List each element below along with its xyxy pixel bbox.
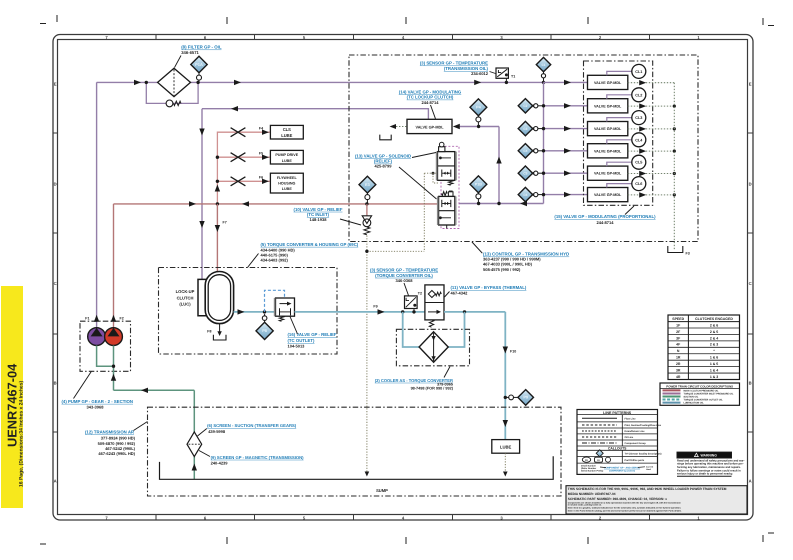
svg-text:F1: F1 — [85, 317, 89, 321]
arrow F2 outlet — [111, 315, 124, 322]
label (15) VALVE GP - MODULATING (PROPORTIONAL) — [554, 206, 656, 225]
svg-text:A: A — [749, 479, 752, 484]
label (5) TORQUE CONVERTER & HOUSING GP (69C) — [248, 242, 359, 268]
svg-text:104-5013: 104-5013 — [288, 343, 306, 348]
svg-text:(4) PUMP GP - GEAR - 2 - SECTI: (4) PUMP GP - GEAR - 2 - SECTION — [62, 399, 133, 404]
wire pump F2 riser (red, x=113.5) — [113, 204, 115, 328]
valve GP-MDL (TC lockup) box (14) — [407, 119, 452, 133]
svg-text:LOCK-UP: LOCK-UP — [176, 289, 195, 294]
lockup clutch capsule (torque converter) — [205, 272, 233, 324]
svg-text:P8: P8 — [262, 328, 268, 333]
junctions on drain bus — [673, 105, 676, 197]
svg-text:CALLOUTS: CALLOUTS — [608, 447, 627, 451]
label T1 — [511, 75, 515, 79]
svg-text:LUBE: LUBE — [282, 159, 293, 163]
svg-text:C1: C1 — [541, 63, 545, 67]
svg-text:P9: P9 — [523, 395, 529, 400]
svg-text:VALVE GP-MDL: VALVE GP-MDL — [594, 193, 622, 197]
svg-text:CL6: CL6 — [635, 182, 642, 186]
svg-text:(3) SENSOR GP - TEMPERATURE: (3) SENSOR GP - TEMPERATURE — [420, 61, 488, 66]
flow arrow into CLS lube box — [262, 130, 269, 135]
flow arrow pump suction up — [111, 374, 116, 381]
svg-text:E3: E3 — [365, 182, 371, 187]
svg-text:346-6571: 346-6571 — [181, 50, 199, 55]
svg-text:434-6403 (992): 434-6403 (992) — [261, 258, 289, 263]
svg-text:Component Group: Component Group — [625, 442, 647, 445]
svg-text:2 & 5: 2 & 5 — [710, 330, 718, 334]
svg-text:439-5998: 439-5998 — [208, 429, 226, 434]
svg-text:LUBE: LUBE — [282, 187, 293, 191]
svg-text:Note: In the Parts Network cat: Note: In the Parts Network catalog, part… — [568, 510, 682, 513]
wire thermal valve out (teal) — [444, 311, 505, 313]
svg-text:234-6012: 234-6012 — [471, 71, 489, 76]
wire lube manifold riser (x=217.4) — [217, 132, 270, 204]
svg-text:F3: F3 — [686, 252, 690, 256]
svg-text:COMPONENT Gp (where): COMPONENT Gp (where) — [609, 469, 636, 472]
valve GP-MDL boxes x6 — [588, 75, 628, 201]
svg-text:F5: F5 — [259, 152, 263, 156]
port P9 diamond — [518, 390, 534, 406]
svg-text:508-4575 (990 / 992): 508-4575 (990 / 992) — [483, 267, 521, 272]
svg-text:CLUTCHES ENGAGED: CLUTCHES ENGAGED — [695, 317, 733, 321]
svg-text:(15) VALVE GP - MODULATING (PR: (15) VALVE GP - MODULATING (PROPORTIONAL… — [554, 214, 656, 219]
drawing frame outer rounded border — [53, 35, 753, 521]
svg-text:(9) SCREEN GP - MAGNETIC (TRAN: (9) SCREEN GP - MAGNETIC (TRANSMISSION) — [211, 455, 305, 460]
svg-text:B: B — [749, 381, 752, 386]
transmission AR sump dash-dot box (12) — [148, 407, 562, 496]
sensor GP temperature T1 (3) — [496, 68, 508, 82]
label (16) VALVE GP - RELIEF (TC OUTLET) — [288, 317, 337, 349]
bottom schematic description box — [566, 486, 747, 514]
box LUBE — [492, 440, 520, 454]
wire cooler outlet drop (teal, x=505.3) — [503, 312, 508, 440]
svg-text:(16) VALVE GP - RELIEF: (16) VALVE GP - RELIEF — [288, 332, 337, 337]
wire lube branch F6 — [217, 180, 270, 182]
port C1 diamond (top of bus) — [536, 57, 550, 71]
screen suction diamond (6) — [187, 432, 202, 457]
svg-text:VALVE GP-MDL: VALVE GP-MDL — [594, 104, 622, 108]
port P1A stem circle — [197, 73, 202, 83]
junction sensor T1 — [505, 81, 508, 84]
frame zone tick marks — [53, 35, 753, 521]
junction cooler return — [463, 310, 466, 313]
label (8) FILTER GP - OIL — [175, 45, 222, 68]
ports C2-C6 diamonds with stems — [518, 99, 543, 202]
svg-text:Oil Line: Oil Line — [625, 436, 634, 439]
label F9 — [373, 305, 377, 309]
spring between valves — [442, 192, 448, 196]
sensor GP temperature T2 (3) — [405, 296, 418, 314]
wire TC outlet to thermal valve (teal) — [295, 309, 425, 314]
solenoid valve lower body — [438, 196, 456, 228]
port P8 stem — [262, 314, 267, 322]
svg-text:1 & 6: 1 & 6 — [710, 356, 718, 360]
label (3) SENSOR GP TEMPERATURE (TORQUE CONVERTER OIL) — [370, 267, 438, 295]
svg-text:D: D — [749, 182, 752, 187]
svg-text:C5: C5 — [523, 172, 527, 176]
svg-text:Drain/Return Line: Drain/Return Line — [625, 430, 646, 433]
svg-text:F9: F9 — [373, 305, 377, 309]
svg-text:SCHEMATIC PART NUMBER: 398-480: SCHEMATIC PART NUMBER: 398-4809, CHANGE:… — [568, 497, 667, 501]
label (12) TRANSMISSION AR — [85, 422, 148, 457]
port E3 stem — [365, 193, 370, 204]
relief valve TC inlet (10) — [362, 204, 371, 235]
port E3 diamond — [359, 176, 376, 193]
svg-text:COMPONENT GP - AND SERIAL: COMPONENT GP - AND SERIAL — [604, 466, 641, 469]
label (14) VALVE GP - MODULATING (TC LOCKUP CLUTCH) — [399, 89, 462, 119]
svg-text:HOUSING: HOUSING — [278, 181, 295, 185]
solenoid valve upper body — [437, 152, 456, 181]
junction lube F6 — [216, 180, 219, 183]
wire cooler loop (teal) — [403, 312, 465, 347]
port P1B stem — [476, 193, 481, 206]
warning notice box — [677, 452, 745, 476]
svg-text:Used: Used — [646, 468, 652, 471]
drawing frame inner border — [58, 40, 748, 515]
svg-text:3R: 3R — [676, 368, 681, 372]
svg-text:1 & 4: 1 & 4 — [710, 368, 718, 372]
flow arrow into pump drive lube box — [262, 155, 269, 160]
svg-text:Note: Next to a graphic, Callo: Note: Next to a graphic, Callouts indica… — [568, 506, 682, 509]
pump section F2 (red) — [105, 328, 123, 346]
torque converter housing dash-dot box (5) — [159, 268, 338, 355]
svg-text:WARNING: WARNING — [701, 453, 718, 457]
svg-text:Pilot, Suction/Cooling/Flow Li: Pilot, Suction/Cooling/Flow Line — [625, 424, 662, 427]
svg-text:C2: C2 — [523, 104, 527, 108]
wire lube drain to sump (khaki dotted) — [503, 453, 508, 476]
wire filter supply line P1 (purple, y=82.4) — [97, 81, 544, 83]
label (11) VALVE GP - BYPASS (THERMAL) — [445, 285, 527, 297]
svg-text:E: E — [749, 82, 752, 87]
svg-text:244-8714: 244-8714 — [422, 100, 440, 105]
cooler AS torque converter symbol — [419, 332, 448, 362]
wire main pressure line (red, y=203.9) — [114, 203, 439, 205]
port P1A diamond — [191, 56, 207, 72]
table SPEED / CLUTCHES ENGAGED — [668, 315, 740, 380]
svg-text:(Refer Number: (Refer Number — [581, 467, 596, 470]
svg-text:(14) VALVE GP - MODULATING: (14) VALVE GP - MODULATING — [399, 89, 462, 94]
solenoid manual override — [448, 191, 453, 196]
label F7 — [223, 221, 227, 225]
svg-text:343-3968: 343-3968 — [87, 405, 105, 410]
orifice F6 — [231, 177, 246, 186]
solenoid coil upper — [439, 142, 445, 151]
svg-text:UENR7467-04: UENR7467-04 — [5, 363, 20, 447]
junction relief pilot — [263, 310, 266, 313]
svg-text:T## (Sensor locality descripti: T## (Sensor locality description) — [625, 452, 662, 455]
label (4) PUMP GP - GEAR - 2 - SECTION — [62, 372, 133, 410]
wire drain bus vertical (pale green dotted, x=674.3) — [673, 83, 675, 250]
control GP (13) outer dash-dot box — [349, 55, 698, 242]
svg-text:F8: F8 — [207, 330, 211, 334]
wire TC outlet (teal, y=311.9) — [234, 309, 276, 314]
junctions on clutch supply bus — [542, 104, 545, 196]
svg-text:P4: P4 — [476, 105, 482, 110]
port C1 stem — [541, 72, 545, 83]
label (13) VALVE GP - SOLENOID (RELIEF) — [355, 153, 437, 200]
svg-text:244-8714: 244-8714 — [597, 220, 615, 225]
port P4 stem — [476, 116, 481, 129]
svg-text:CL2: CL2 — [635, 93, 642, 97]
svg-text:MAIN / CLUTCH PRESSURE OIL: MAIN / CLUTCH PRESSURE OIL — [684, 390, 720, 393]
svg-text:(8) FILTER GP - OIL: (8) FILTER GP - OIL — [181, 45, 222, 50]
svg-text:(5) TORQUE CONVERTER & HOUSING: (5) TORQUE CONVERTER & HOUSING GP (69C) — [261, 242, 359, 247]
svg-text:F2: F2 — [120, 317, 124, 321]
pump section F1 (purple) — [88, 328, 106, 346]
label (3) SENSOR GP TEMPERATURE (TRANSMISSION OIL) — [420, 61, 496, 76]
junction lockup riser — [497, 202, 500, 205]
svg-text:MEDIA NUMBER: UENR7467-04: MEDIA NUMBER: UENR7467-04 — [568, 492, 616, 496]
svg-text:LUBE: LUBE — [500, 445, 512, 450]
bracket F3 (drain to sump) — [668, 246, 690, 256]
arrow F1 outlet — [85, 315, 99, 322]
orifice F4 — [231, 128, 246, 137]
svg-text:LUBE: LUBE — [281, 133, 292, 138]
port P9 stem — [505, 395, 518, 400]
junction TC relief — [365, 202, 368, 205]
svg-text:Flow Line: Flow Line — [625, 417, 637, 420]
label (9) SCREEN GP - MAGNETIC (TRANSMISSION) — [199, 451, 304, 466]
sump tray line — [160, 456, 554, 479]
svg-text:in neutral mode, parking brake: in neutral mode, parking brake on. — [568, 504, 602, 507]
junction filter inlet — [145, 81, 148, 84]
svg-text:(12) TRANSMISSION AR: (12) TRANSMISSION AR — [85, 429, 135, 434]
svg-text:B: B — [54, 381, 57, 386]
svg-text:(6) SCREEN - SUCTION (TRANSFER: (6) SCREEN - SUCTION (TRANSFER GEARS) — [207, 423, 297, 428]
wire lockup valve feed (purple, y=126.5) — [453, 124, 499, 129]
clutch circles CL1-CL6 — [607, 64, 646, 190]
wires bus to modulating valves (6 rows) — [544, 80, 588, 198]
svg-text:98-7498 (FOR 990 / 992): 98-7498 (FOR 990 / 992) — [411, 386, 454, 390]
svg-text:VALVE GP-MDL: VALVE GP-MDL — [594, 81, 622, 85]
yellow sidebar UENR7467-04 — [1, 286, 24, 508]
wire lockup clutch riser (purple, x=202) — [201, 109, 203, 280]
wire TC inlet drop (red, x=217.4) — [216, 204, 218, 272]
wire lockup feed riser (purple, x=499) — [496, 127, 501, 204]
svg-text:CL5: CL5 — [635, 161, 642, 165]
wire lockup clutch supply (purple, y=108.7) — [202, 109, 428, 120]
label (2) COOLER AS - TORQUE CONVERTER — [375, 367, 454, 391]
spring upper valve — [449, 180, 453, 185]
label F10 — [510, 350, 516, 354]
box PUMP DRIVE LUBE — [270, 150, 303, 164]
relief valve TC outlet (16) — [275, 298, 295, 321]
svg-text:16 Page, (Dimensions:34 Inches: 16 Page, (Dimensions:34 Inches x 24 Inch… — [18, 381, 24, 487]
svg-text:POWER TRAIN CIRCUIT COLOR DESC: POWER TRAIN CIRCUIT COLOR DESCRIPTIONS — [666, 384, 733, 388]
svg-text:F10: F10 — [510, 350, 516, 354]
svg-text:4R: 4R — [676, 375, 681, 379]
svg-text:(LUC): (LUC) — [179, 302, 191, 307]
svg-text:P1A: P1A — [195, 62, 203, 67]
svg-text:SUCTION OIL: SUCTION OIL — [684, 396, 699, 399]
svg-text:THIS SCHEMATIC IS FOR THE 990,: THIS SCHEMATIC IS FOR THE 990, 990L, 990… — [568, 487, 727, 491]
flow arrows lockup riser — [199, 129, 204, 229]
wire lockup valve drain (dotted) — [390, 124, 408, 129]
svg-text:T1: T1 — [511, 75, 515, 79]
wire bus bottom to solenoid valve (purple, y=203.5) — [459, 201, 544, 206]
svg-text:FLYWHEEL: FLYWHEEL — [277, 176, 298, 180]
svg-text:CL4: CL4 — [635, 138, 643, 142]
svg-text:TORQUE CONVERTER INLET PRESSUR: TORQUE CONVERTER INLET PRESSURE OIL — [684, 393, 734, 396]
wire pump suction (green) — [97, 346, 114, 391]
orifice F5 — [231, 153, 246, 162]
svg-text:1R: 1R — [676, 356, 681, 360]
svg-text:LUBRICATION OIL: LUBRICATION OIL — [684, 402, 705, 405]
thermal bypass valve (11) — [425, 285, 444, 327]
svg-text:F7: F7 — [223, 221, 227, 225]
svg-text:P1B: P1B — [475, 183, 483, 187]
label F5 — [259, 152, 263, 156]
port P1B diamond — [470, 176, 487, 193]
box FLYWHEEL HOUSING LUBE — [270, 173, 303, 193]
table POWER TRAIN CIRCUIT COLOR DESCRIPTIONS — [660, 383, 740, 405]
svg-text:F6: F6 — [259, 176, 263, 180]
svg-text:467-4342: 467-4342 — [451, 290, 469, 295]
svg-text:CLUTCH: CLUTCH — [177, 295, 194, 300]
port P4 diamond — [470, 99, 487, 116]
label (10) VALVE GP - RELIEF (TC INLET) — [294, 207, 361, 225]
svg-text:346-0368: 346-0368 — [396, 278, 414, 283]
svg-text:240-4239: 240-4239 — [211, 460, 229, 465]
junction filter outlet — [196, 81, 199, 84]
junction pump suction — [112, 365, 115, 368]
svg-text:Detail Number: Detail Number — [581, 464, 596, 467]
label F4 — [259, 127, 263, 131]
svg-text:1 & 5: 1 & 5 — [710, 362, 718, 366]
solenoid valve group dashed box — [441, 146, 459, 228]
svg-text:F4: F4 — [259, 127, 263, 131]
svg-text:2 & 3: 2 & 3 — [710, 343, 718, 347]
flow arrow TC inlet — [215, 225, 220, 232]
svg-text:T2: T2 — [418, 292, 422, 296]
bracket lockup valve drain — [380, 135, 391, 140]
wire lube branch F5 — [217, 156, 270, 158]
svg-text:1 & 3: 1 & 3 — [710, 375, 718, 379]
svg-text:PUMP DRIVE: PUMP DRIVE — [275, 153, 298, 157]
filter GP-OIL symbol (8) — [158, 68, 191, 96]
frame zone reference numbers and letters — [54, 35, 752, 520]
svg-text:TORQUE CONVERTER OUTLET OIL: TORQUE CONVERTER OUTLET OIL — [684, 399, 724, 402]
wire clutch supply bus (purple, x=543.5) — [543, 82, 545, 203]
cooler dash-dot box (2) — [396, 329, 469, 366]
svg-text:C3: C3 — [523, 127, 527, 131]
svg-text:C: C — [54, 281, 57, 286]
label F6 — [259, 176, 263, 180]
junction bus top — [542, 81, 545, 84]
check valve (filter bypass) — [166, 100, 181, 107]
svg-text:2 & 6: 2 & 6 — [710, 323, 718, 327]
svg-text:VALVE GP-MDL: VALVE GP-MDL — [594, 127, 622, 131]
wire relief pilot (blue dashed) — [265, 290, 285, 312]
svg-text:SUMP: SUMP — [376, 488, 388, 493]
junction cooler loop — [401, 310, 404, 313]
label (13) CONTROL GP - TRANSMISSION HYD — [472, 242, 569, 272]
svg-text:148-1938: 148-1938 — [310, 217, 328, 222]
svg-text:CL3: CL3 — [635, 116, 642, 120]
wire suction line (green) — [114, 388, 198, 480]
wires valve outputs to drain bus (pale green dotted) — [628, 80, 675, 198]
filter bypass loop wire — [146, 82, 198, 103]
svg-text:E: E — [54, 82, 57, 87]
svg-text:2R: 2R — [676, 362, 681, 366]
junction lube F5 — [216, 156, 219, 159]
svg-text:A: A — [54, 479, 57, 484]
wire pump F1 riser (purple, x=96.6) — [96, 82, 98, 328]
wire upper valve drain (khaki dotted) — [424, 172, 438, 252]
label SUMP — [376, 488, 388, 493]
svg-text:Port/Orifice ports: Port/Orifice ports — [625, 459, 645, 462]
box CLS LUBE — [270, 125, 303, 139]
svg-text:425-8799: 425-8799 — [375, 164, 393, 169]
svg-text:serious injury or death to per: serious injury or death to personnel nea… — [677, 473, 733, 476]
wire relief drain (khaki dotted) — [365, 236, 425, 477]
valve GP modulating proportional (15) inner dash-dot box — [584, 61, 653, 205]
flow arrows on filter line — [134, 80, 481, 85]
flow arrow lockup supply — [231, 106, 238, 111]
flow arrow into flywheel lube box — [262, 179, 269, 184]
legend LINE PATTERNS / CALLOUTS box — [577, 410, 662, 475]
svg-text:D: D — [54, 182, 57, 187]
svg-text:467-6243 (990L HD): 467-6243 (990L HD) — [98, 451, 135, 456]
label T2 — [418, 292, 422, 296]
svg-text:2 & 4: 2 & 4 — [710, 336, 718, 340]
svg-text:C4: C4 — [523, 149, 527, 153]
svg-text:VALVE GP-MDL: VALVE GP-MDL — [594, 172, 622, 176]
svg-text:CLS: CLS — [283, 127, 291, 132]
lockup clutch piston bracket — [198, 279, 207, 315]
label LOCK-UP CLUTCH (LUC) — [176, 289, 195, 307]
svg-text:VALVE GP-MDL: VALVE GP-MDL — [594, 149, 622, 153]
wire capsule drain F8 — [207, 324, 226, 340]
port P8 diamond — [256, 322, 273, 339]
svg-text:(3) SENSOR GP - TEMPERATURE: (3) SENSOR GP - TEMPERATURE — [370, 267, 438, 272]
svg-text:VALVE GP-MDL: VALVE GP-MDL — [415, 125, 444, 129]
svg-text:C: C — [749, 281, 752, 286]
svg-text:C6: C6 — [523, 193, 527, 197]
flow arrows main red line — [189, 201, 249, 206]
junction lube manifold — [216, 202, 219, 205]
svg-text:SPEED: SPEED — [672, 317, 684, 321]
pump GP dash-dot box (4) — [80, 321, 131, 371]
flow arrow lube riser up — [215, 185, 220, 192]
svg-text:Serial Number Prefix): Serial Number Prefix) — [581, 470, 604, 473]
junction port P9 — [504, 396, 507, 399]
svg-text:(TC OUTLET): (TC OUTLET) — [288, 338, 316, 343]
svg-text:FD: FD — [585, 459, 588, 462]
svg-text:467-4033 (990L / 990L HD): 467-4033 (990L / 990L HD) — [483, 262, 533, 267]
svg-text:CL1: CL1 — [635, 70, 642, 74]
label (6) SCREEN - SUCTION (TRANSFER GEARS) — [198, 423, 297, 436]
